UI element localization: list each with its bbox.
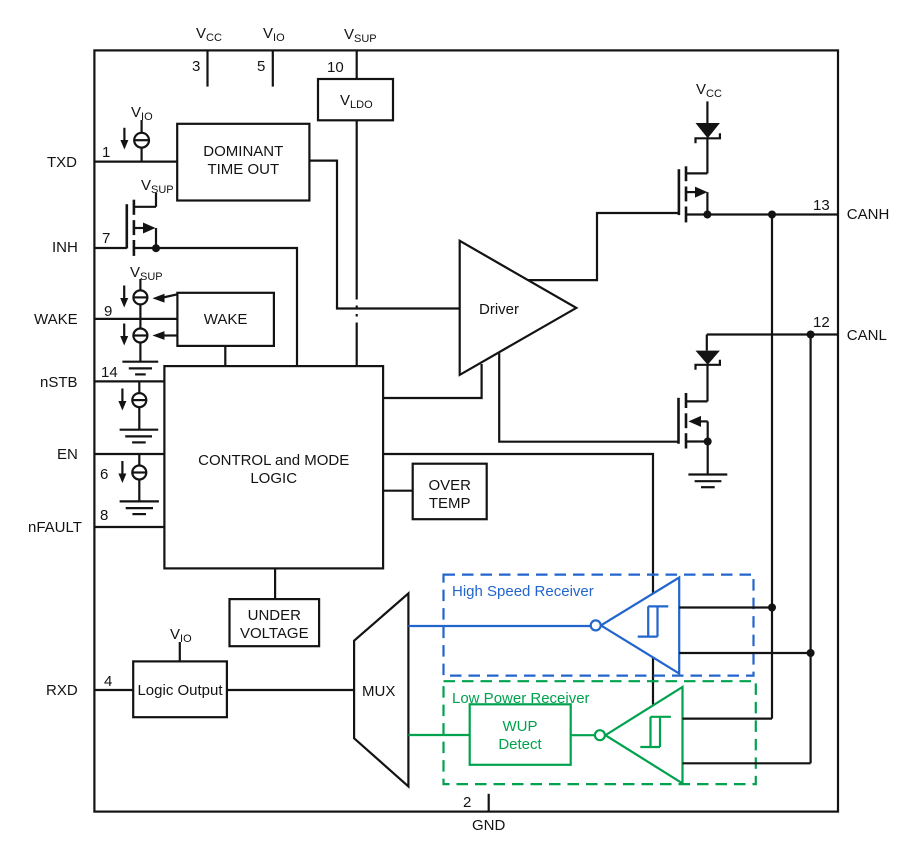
nSTB pin label [40,374,78,391]
ground below Q3 [688,475,727,488]
CANL pin label [847,327,887,344]
GND pin stub [488,794,490,812]
zener diode D2 [696,335,720,402]
svg-text:WUP: WUP [503,718,538,735]
current arrow at I2 [120,286,128,308]
Low Power Receiver label [452,690,590,707]
svg-text:VSUP: VSUP [344,26,377,45]
VIO label above TXD current source [131,104,153,123]
control arrow WAKE block to I3 [152,331,177,340]
high speed receiver dashed box [444,575,754,676]
INH pin label [52,239,78,256]
wire U3 minus input from CANL [683,762,811,764]
VIO label above Logic Output [170,626,192,645]
VSUP top label [344,26,377,45]
ground below I4 [120,430,159,443]
wire INH output to control logic [156,248,297,366]
transistor Q1 (INH high-side switch) [127,193,156,256]
pin number 13 [813,197,830,214]
svg-text:7: 7 [102,230,110,247]
ground below I5 [120,501,159,514]
svg-text:5: 5 [257,58,265,75]
junction dot CANL to receivers [807,331,815,339]
block Logic Output [133,661,227,717]
svg-text:Driver: Driver [479,301,519,318]
svg-text:TIME OUT: TIME OUT [207,161,279,178]
low power receiver dashed box [444,681,756,784]
block WUP Detect [470,704,571,765]
VIO top label [263,25,285,44]
wire CANL net [707,333,838,335]
control arrow WAKE block to I2 [152,294,177,303]
wire RXD pin to Logic Output [94,689,133,691]
pin number 8 [100,507,108,524]
pin number 14 [101,364,118,381]
wire Q3 source to ground [707,442,709,475]
svg-text:12: 12 [813,314,830,331]
current source I1 (TXD pull-up) [134,120,149,162]
junction dot Q3 source [704,438,712,446]
pin number 10 [327,59,344,76]
svg-text:nFAULT: nFAULT [28,519,82,536]
svg-text:VCC: VCC [196,25,222,44]
block UNDER VOLTAGE [230,599,320,646]
svg-text:OVER: OVER [428,477,471,494]
svg-text:TEMP: TEMP [429,495,471,512]
nFAULT pin label [28,519,82,536]
wire CANH to receiver inputs [771,215,773,719]
current source I5 (EN pull-down) [132,454,146,501]
block DOMINANT TIME OUT [177,124,309,201]
current source I2 (WAKE pull-up) [133,279,147,329]
transistor Q3 (CANL low-side) [679,393,708,449]
svg-text:VCC: VCC [696,81,722,100]
junction dot CANH to receivers [768,211,776,219]
transistor Q2 (CANH high-side) [679,166,708,222]
wire TXD pin to DOMINANT TIME OUT [94,161,177,163]
GND pin label [472,817,506,834]
junction dot CANH at U2 [768,604,776,612]
pin number 3 [192,58,200,75]
svg-text:VSUP: VSUP [130,264,163,283]
VCC top label [196,25,222,44]
svg-text:2: 2 [463,794,471,811]
wire CANL to receiver inputs [809,335,811,764]
pin number 1 [102,144,110,161]
wire Logic Output to MUX [227,689,354,691]
regulator VLDO [318,79,393,120]
comparator U3 low power receiver [595,687,683,783]
current source I3 (WAKE pull-down) [133,329,147,362]
wire EN pin to control logic [94,453,164,455]
svg-text:14: 14 [101,364,118,381]
comparator U2 high speed receiver [591,578,680,674]
wire DOMINANT TIME OUT output to driver input [309,161,459,309]
junction dot Q2 source [703,211,711,219]
multiplexer MUX [354,593,408,786]
wire nFAULT pin to control logic [94,526,164,528]
svg-text:VSUP: VSUP [141,177,174,196]
svg-text:3: 3 [192,58,200,75]
svg-text:RXD: RXD [46,682,78,699]
svg-text:WAKE: WAKE [34,311,78,328]
svg-text:CANH: CANH [847,206,890,223]
High Speed Receiver label [452,583,594,600]
TXD pin label [47,154,77,171]
pin number 7 [102,230,110,247]
WAKE pin label [34,311,78,328]
VCC label above D1 [696,81,722,100]
current arrow at I5 [118,461,126,483]
block OVER TEMP [413,464,487,520]
svg-text:10: 10 [327,59,344,76]
current arrow at I1 [120,128,128,150]
svg-text:VIO: VIO [263,25,285,44]
wire CANH net [686,213,838,215]
svg-text:VIO: VIO [170,626,192,645]
pin number 4 [104,673,112,690]
block WAKE [177,293,274,346]
svg-text:Logic Output: Logic Output [137,682,223,699]
pin 3 stub [206,50,208,86]
pin 5 stub [272,50,274,86]
ground below I3 [122,362,158,375]
svg-text:9: 9 [104,303,112,320]
current arrow at I3 [120,324,128,346]
VSUP label above Q1 [141,177,174,196]
zener diode D1 [696,101,720,173]
svg-text:UNDER: UNDER [248,607,302,624]
wire WUP Detect to U3 [571,734,595,736]
svg-text:8: 8 [100,507,108,524]
svg-text:6: 6 [100,466,108,483]
RXD pin label [46,682,78,699]
wire WAKE pin to WAKE block [94,318,177,320]
junction dot CANL at U2 [807,649,815,657]
block CONTROL and MODE LOGIC [164,366,383,568]
svg-text:nSTB: nSTB [40,374,78,391]
svg-text:DOMINANT: DOMINANT [203,143,283,160]
current source I4 (nSTB pull-down) [132,381,146,429]
wire driver output to Q2 gate [528,213,679,280]
svg-text:EN: EN [57,446,78,463]
wire U2 minus input from CANL [679,652,810,654]
wire WAKE block to control logic [224,346,226,366]
junction dot Q1 source / INH [152,244,160,252]
wire MUX to WUP Detect (green) [408,734,469,736]
svg-text:CANL: CANL [847,327,887,344]
wire U3 plus input from CANH [683,717,773,719]
wire nSTB pin to control logic [94,380,164,382]
pin number 5 [257,58,265,75]
svg-text:TXD: TXD [47,154,77,171]
wire U2 plus input from CANH [679,606,772,608]
svg-text:GND: GND [472,817,506,834]
svg-text:4: 4 [104,673,112,690]
svg-text:MUX: MUX [362,683,395,700]
VSUP net wire pin10 to control logic with crossover break [356,50,358,366]
wire control logic to UNDER VOLTAGE [274,568,276,599]
svg-text:LOGIC: LOGIC [250,470,297,487]
current arrow at I4 [118,389,126,411]
svg-text:13: 13 [813,197,830,214]
wire INH pin to Q1 gate [94,247,126,249]
CANH pin label [847,206,890,223]
svg-text:VOLTAGE: VOLTAGE [240,625,309,642]
svg-text:1: 1 [102,144,110,161]
svg-text:CONTROL and MODE: CONTROL and MODE [198,452,349,469]
svg-text:INH: INH [52,239,78,256]
wire control logic to driver enable [383,364,482,398]
EN pin label [57,446,78,463]
wire MUX to high speed receiver (blue) [408,625,590,627]
pin number 6 [100,466,108,483]
wire control logic to OVER TEMP [383,490,413,492]
pin number 2 [463,794,471,811]
svg-text:WAKE: WAKE [204,311,248,328]
VSUP label above I2 [130,264,163,283]
pin number 9 [104,303,112,320]
stub VIO to Logic Output [179,642,181,661]
pin number 12 [813,314,830,331]
op-amp driver U1 [460,241,577,375]
svg-text:Detect: Detect [498,736,542,753]
IC boundary border [94,50,838,811]
wire control logic to low power receiver enable [383,454,653,705]
wire driver output to Q3 gate [499,353,678,441]
svg-text:High Speed Receiver: High Speed Receiver [452,583,594,600]
